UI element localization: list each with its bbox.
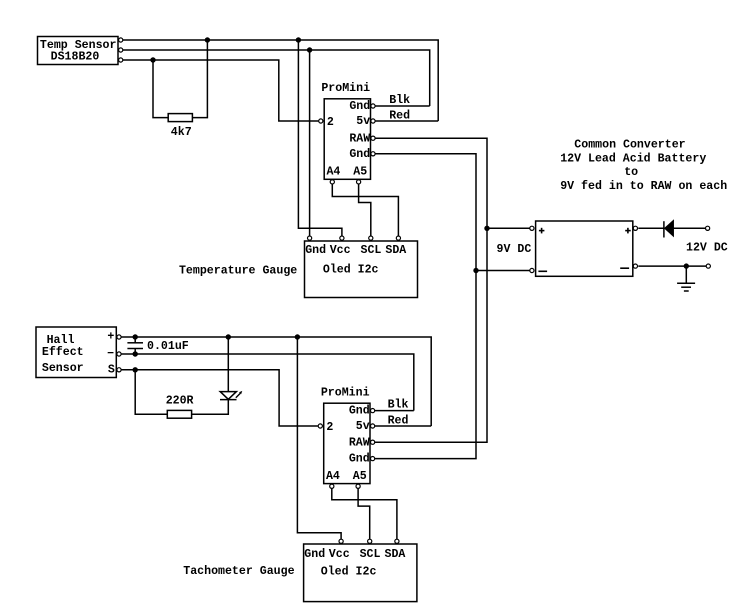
terminal U2 5v (371, 424, 375, 428)
diode D1 (663, 221, 665, 237)
terminal U2 Gnd (371, 409, 375, 413)
terminal U1 Gnd (371, 104, 375, 108)
wire Gnd bus U1 to U2 (375, 154, 476, 459)
wire RAW bus to converter plus (487, 227, 532, 229)
ProMini U2 box (324, 403, 370, 483)
Temp Sensor DS18B20 box (38, 37, 119, 65)
terminal Oled2 Vcc (339, 539, 343, 543)
junction Gnd1 tap (307, 47, 312, 52)
svg-text:A5: A5 (353, 470, 367, 483)
svg-text:Red: Red (388, 415, 409, 428)
svg-text:2: 2 (326, 421, 333, 434)
svg-text:Oled I2c: Oled I2c (321, 566, 377, 579)
svg-text:Gnd: Gnd (349, 148, 370, 161)
svg-text:Gnd: Gnd (349, 453, 370, 466)
wire 220R to LED cathode (192, 400, 229, 415)
svg-text:Effect: Effect (42, 346, 84, 359)
terminal U1 A4 (330, 180, 334, 184)
wire LED anode to plus rail (227, 337, 229, 392)
junction 4k7 right (205, 37, 210, 42)
wire temp pin2 to Blk/Gnd net (123, 50, 430, 106)
svg-text:Gnd: Gnd (349, 405, 370, 418)
wire hall plus to Red/5v net gauge2 (121, 337, 431, 426)
terminal U1 RAW (371, 136, 375, 140)
svg-text:Vcc: Vcc (329, 548, 350, 561)
svg-text:Tachometer Gauge: Tachometer Gauge (183, 565, 294, 578)
svg-text:A4: A4 (326, 166, 340, 179)
wire hall minus to Blk/Gnd net gauge2 (121, 354, 414, 411)
wire S to 220R (135, 370, 167, 415)
terminal hall minus (117, 352, 121, 356)
DC converter box (536, 221, 633, 276)
svg-text:Blk: Blk (388, 399, 409, 412)
terminal converter in minus (530, 268, 534, 272)
svg-text:DS18B20: DS18B20 (51, 51, 100, 64)
svg-text:+: + (107, 331, 114, 344)
terminal U2 A5 (356, 484, 360, 488)
wire hall S to U2 pin2 (121, 370, 318, 426)
wire capacitor bottom stub (134, 349, 136, 355)
terminal Oled2 SDA (395, 539, 399, 543)
wire 4k7 right leg (192, 40, 207, 118)
svg-text:5v: 5v (356, 420, 370, 433)
svg-text:SCL: SCL (361, 244, 382, 257)
svg-text:4k7: 4k7 (171, 126, 192, 139)
svg-text:Common Converter: Common Converter (574, 139, 685, 152)
Oled I2c display 1 box (305, 241, 418, 298)
junction cap bottom (133, 351, 138, 356)
terminal Oled1 SCL (369, 236, 373, 240)
resistor R1 4k7 (168, 114, 192, 122)
LED D2 (220, 399, 237, 401)
svg-text:0.01uF: 0.01uF (147, 340, 189, 353)
resistor R2 220R (167, 410, 191, 418)
junction LED anode tap (226, 334, 231, 339)
svg-text:−: − (107, 348, 114, 361)
terminal U2 RAW (371, 440, 375, 444)
junction RAW bus to converter (484, 226, 489, 231)
svg-text:Oled I2c: Oled I2c (323, 264, 379, 277)
terminal U1 pin2 (319, 119, 323, 123)
terminal 12V plus end (706, 226, 710, 230)
wire Vcc net gauge2 to Oled2 Vcc (297, 337, 341, 544)
wire ground stem (685, 266, 687, 283)
ground symbol (677, 282, 695, 284)
junction 12V minus ground tap (684, 263, 689, 268)
svg-text:12V Lead Acid Battery: 12V Lead Acid Battery (560, 152, 706, 165)
wire diode to 12V terminal (673, 227, 707, 229)
Hall Effect Sensor box (36, 327, 116, 378)
wire temp pin1 to Red/5v net (123, 40, 438, 121)
svg-text:A5: A5 (353, 166, 367, 179)
svg-text:RAW: RAW (349, 132, 370, 145)
junction Vcc2 tap (295, 334, 300, 339)
svg-text:9V fed in to RAW on each: 9V fed in to RAW on each (560, 180, 727, 193)
converter terminal signs (538, 228, 630, 271)
junction Vcc1 tap (296, 37, 301, 42)
wire converter minus out (638, 265, 708, 267)
svg-text:220R: 220R (166, 395, 194, 408)
svg-text:Sensor: Sensor (42, 362, 84, 375)
svg-text:A4: A4 (326, 470, 340, 483)
terminal hall S (117, 368, 121, 372)
svg-text:12V DC: 12V DC (686, 242, 728, 255)
svg-text:Blk: Blk (389, 94, 410, 107)
terminal U1 A5 (357, 180, 361, 184)
wire 4k7 left leg (153, 60, 168, 118)
svg-text:S: S (108, 363, 115, 376)
svg-text:9V DC: 9V DC (497, 243, 532, 256)
Oled I2c display 2 box (304, 544, 417, 602)
terminal Oled1 SDA (396, 236, 400, 240)
svg-text:Gnd: Gnd (304, 548, 325, 561)
wire temp data to U1 pin2 (123, 60, 319, 121)
wire converter plus out to diode (638, 227, 664, 229)
terminal U1 Gnd2 (371, 152, 375, 156)
junction S to 220R (133, 367, 138, 372)
svg-text:SDA: SDA (385, 548, 406, 561)
svg-text:Temperature Gauge: Temperature Gauge (179, 264, 297, 277)
terminal hall plus (117, 335, 121, 339)
svg-text:ProMini: ProMini (321, 82, 370, 95)
svg-text:Gnd: Gnd (349, 100, 370, 113)
terminal temp pin2 (119, 48, 123, 52)
svg-text:Gnd: Gnd (305, 244, 326, 257)
wire Gnd net gauge1 to Oled1 Gnd (309, 50, 311, 241)
terminal converter out minus (633, 264, 637, 268)
svg-text:RAW: RAW (349, 436, 370, 449)
wire U1 A4 to Oled1 SDA (332, 182, 398, 241)
wire Gnd bus to converter minus (476, 270, 532, 272)
wire Red 5v to U1 (375, 120, 438, 122)
svg-text:SDA: SDA (385, 244, 406, 257)
wire Vcc net gauge1 to Oled1 Vcc (298, 40, 342, 241)
wire capacitor top stub (134, 337, 136, 343)
terminal Oled2 SCL (368, 539, 372, 543)
terminal temp pin3 (119, 58, 123, 62)
terminal Oled1 Gnd (308, 236, 312, 240)
svg-text:Red: Red (389, 110, 410, 123)
ProMini U1 box (324, 99, 370, 180)
wire U2 A4 to Oled2 SDA (332, 486, 397, 544)
svg-text:SCL: SCL (360, 548, 381, 561)
terminal converter out plus (633, 226, 637, 230)
terminal 12V minus end (706, 264, 710, 268)
wire Red 5v to U2 (375, 425, 431, 427)
junction 4k7 left (150, 57, 155, 62)
LED arrow (236, 393, 240, 397)
terminal U2 Gnd2 (371, 457, 375, 461)
wire Blk Gnd to U1 (375, 105, 429, 107)
terminal temp pin1 (119, 38, 123, 42)
terminal Oled1 Vcc (340, 236, 344, 240)
wire U2 A5 to Oled2 SCL (358, 486, 370, 544)
capacitor C1 0.01uF plates (127, 342, 143, 344)
svg-text:5v: 5v (356, 115, 370, 128)
svg-text:2: 2 (327, 116, 334, 129)
junction Gnd bus to converter (473, 268, 478, 273)
wire Blk Gnd to U2 (375, 410, 414, 412)
svg-text:to: to (624, 166, 638, 179)
terminal U2 pin2 (318, 424, 322, 428)
svg-text:ProMini: ProMini (321, 387, 370, 400)
svg-text:Vcc: Vcc (330, 244, 351, 257)
terminal U2 A4 (330, 484, 334, 488)
junction cap top (133, 334, 138, 339)
wire RAW bus U1 to U2 (375, 138, 487, 442)
terminal U1 5v (371, 119, 375, 123)
terminal converter in plus (530, 226, 534, 230)
wire U1 A5 to Oled1 SCL (359, 182, 371, 241)
